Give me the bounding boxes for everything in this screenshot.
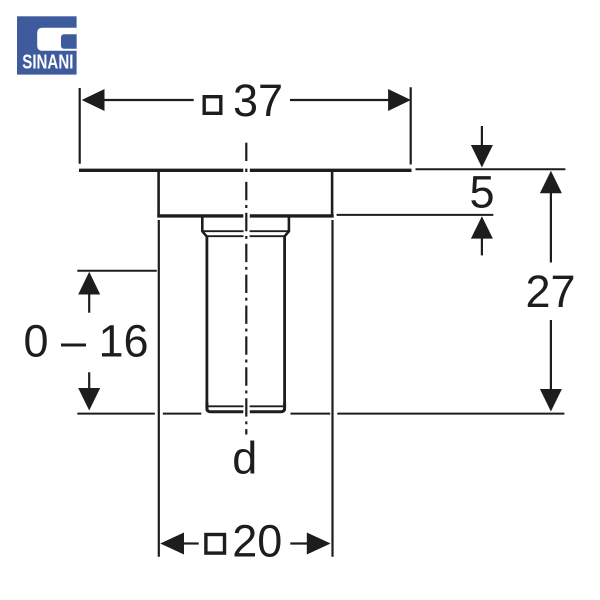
pipe neck edge line lower (207, 235, 244, 237)
pipe neck chamfer right (285, 231, 289, 236)
extension line 20 right (331, 220, 333, 557)
centerline (dash-dot) (245, 182, 247, 435)
flange box left side (157, 171, 160, 215)
dimension line 27 lower segment (550, 320, 552, 390)
svg-text:5: 5 (469, 167, 494, 218)
dimension 5 upper tail (481, 126, 483, 146)
centerline top dash (245, 143, 247, 161)
label square symbol 20 (206, 535, 225, 554)
arrowhead 27 up (540, 171, 562, 194)
svg-text:27: 27 (525, 266, 575, 317)
svg-text:20: 20 (232, 516, 282, 567)
pipe inner bottom edge line (208, 405, 243, 407)
flange box right side (331, 171, 334, 215)
logo blue square (17, 16, 77, 74)
arrowhead 37 left (82, 89, 105, 111)
dimension line 27 upper segment (550, 193, 552, 263)
pipe neck left vertical (201, 217, 204, 232)
arrowhead 20 right (307, 533, 331, 555)
svg-text:d: d (232, 433, 257, 484)
dimension line 37 left segment (104, 99, 194, 101)
pipe neck right vertical (288, 217, 291, 232)
pipe neck chamfer left (202, 231, 206, 236)
dimension 0-16 lower tail (88, 372, 90, 389)
svg-text:SINANI: SINANI (22, 51, 73, 73)
arrowhead 5 down (471, 145, 493, 168)
flange top plate thick line (79, 169, 243, 172)
flange top extension line right (for 5 and 27) (416, 168, 566, 170)
pipe wall left (205, 236, 208, 410)
flange box bottom thick line (157, 214, 243, 217)
logo blue tongue (61, 34, 77, 49)
dimension 5 lower tail (481, 238, 483, 255)
svg-text:0 – 16: 0 – 16 (23, 316, 148, 367)
arrowhead 5 up (471, 216, 493, 238)
dimension 0-16 upper tail (88, 294, 90, 313)
pipe wall right (283, 236, 286, 410)
dimension line 37 right segment (290, 99, 389, 101)
flange bottom extension line right (for 5) (337, 214, 494, 216)
extension line 20 left (158, 220, 160, 557)
reference line bottom at pipe end (77, 413, 155, 415)
pipe bottom thick line (207, 402, 243, 412)
arrowhead 27 down (540, 389, 562, 412)
logo white G shape (37, 28, 76, 51)
label square symbol 37 (204, 97, 221, 114)
dimension line 20 left segment (184, 542, 199, 544)
arrowhead 20 left (160, 533, 184, 555)
extension line 37 left (79, 88, 81, 164)
arrowhead 0-16 down (78, 388, 100, 411)
svg-text:37: 37 (233, 75, 283, 126)
extension line 37 right (410, 87, 412, 164)
pipe neck edge line upper (203, 230, 243, 232)
reference line top of 0-16 (77, 270, 157, 272)
arrowhead 0-16 up (78, 272, 100, 295)
dimension line 20 right segment (290, 542, 307, 544)
arrowhead 37 right (388, 89, 411, 111)
centerline dot at flange crossing (245, 169, 247, 172)
